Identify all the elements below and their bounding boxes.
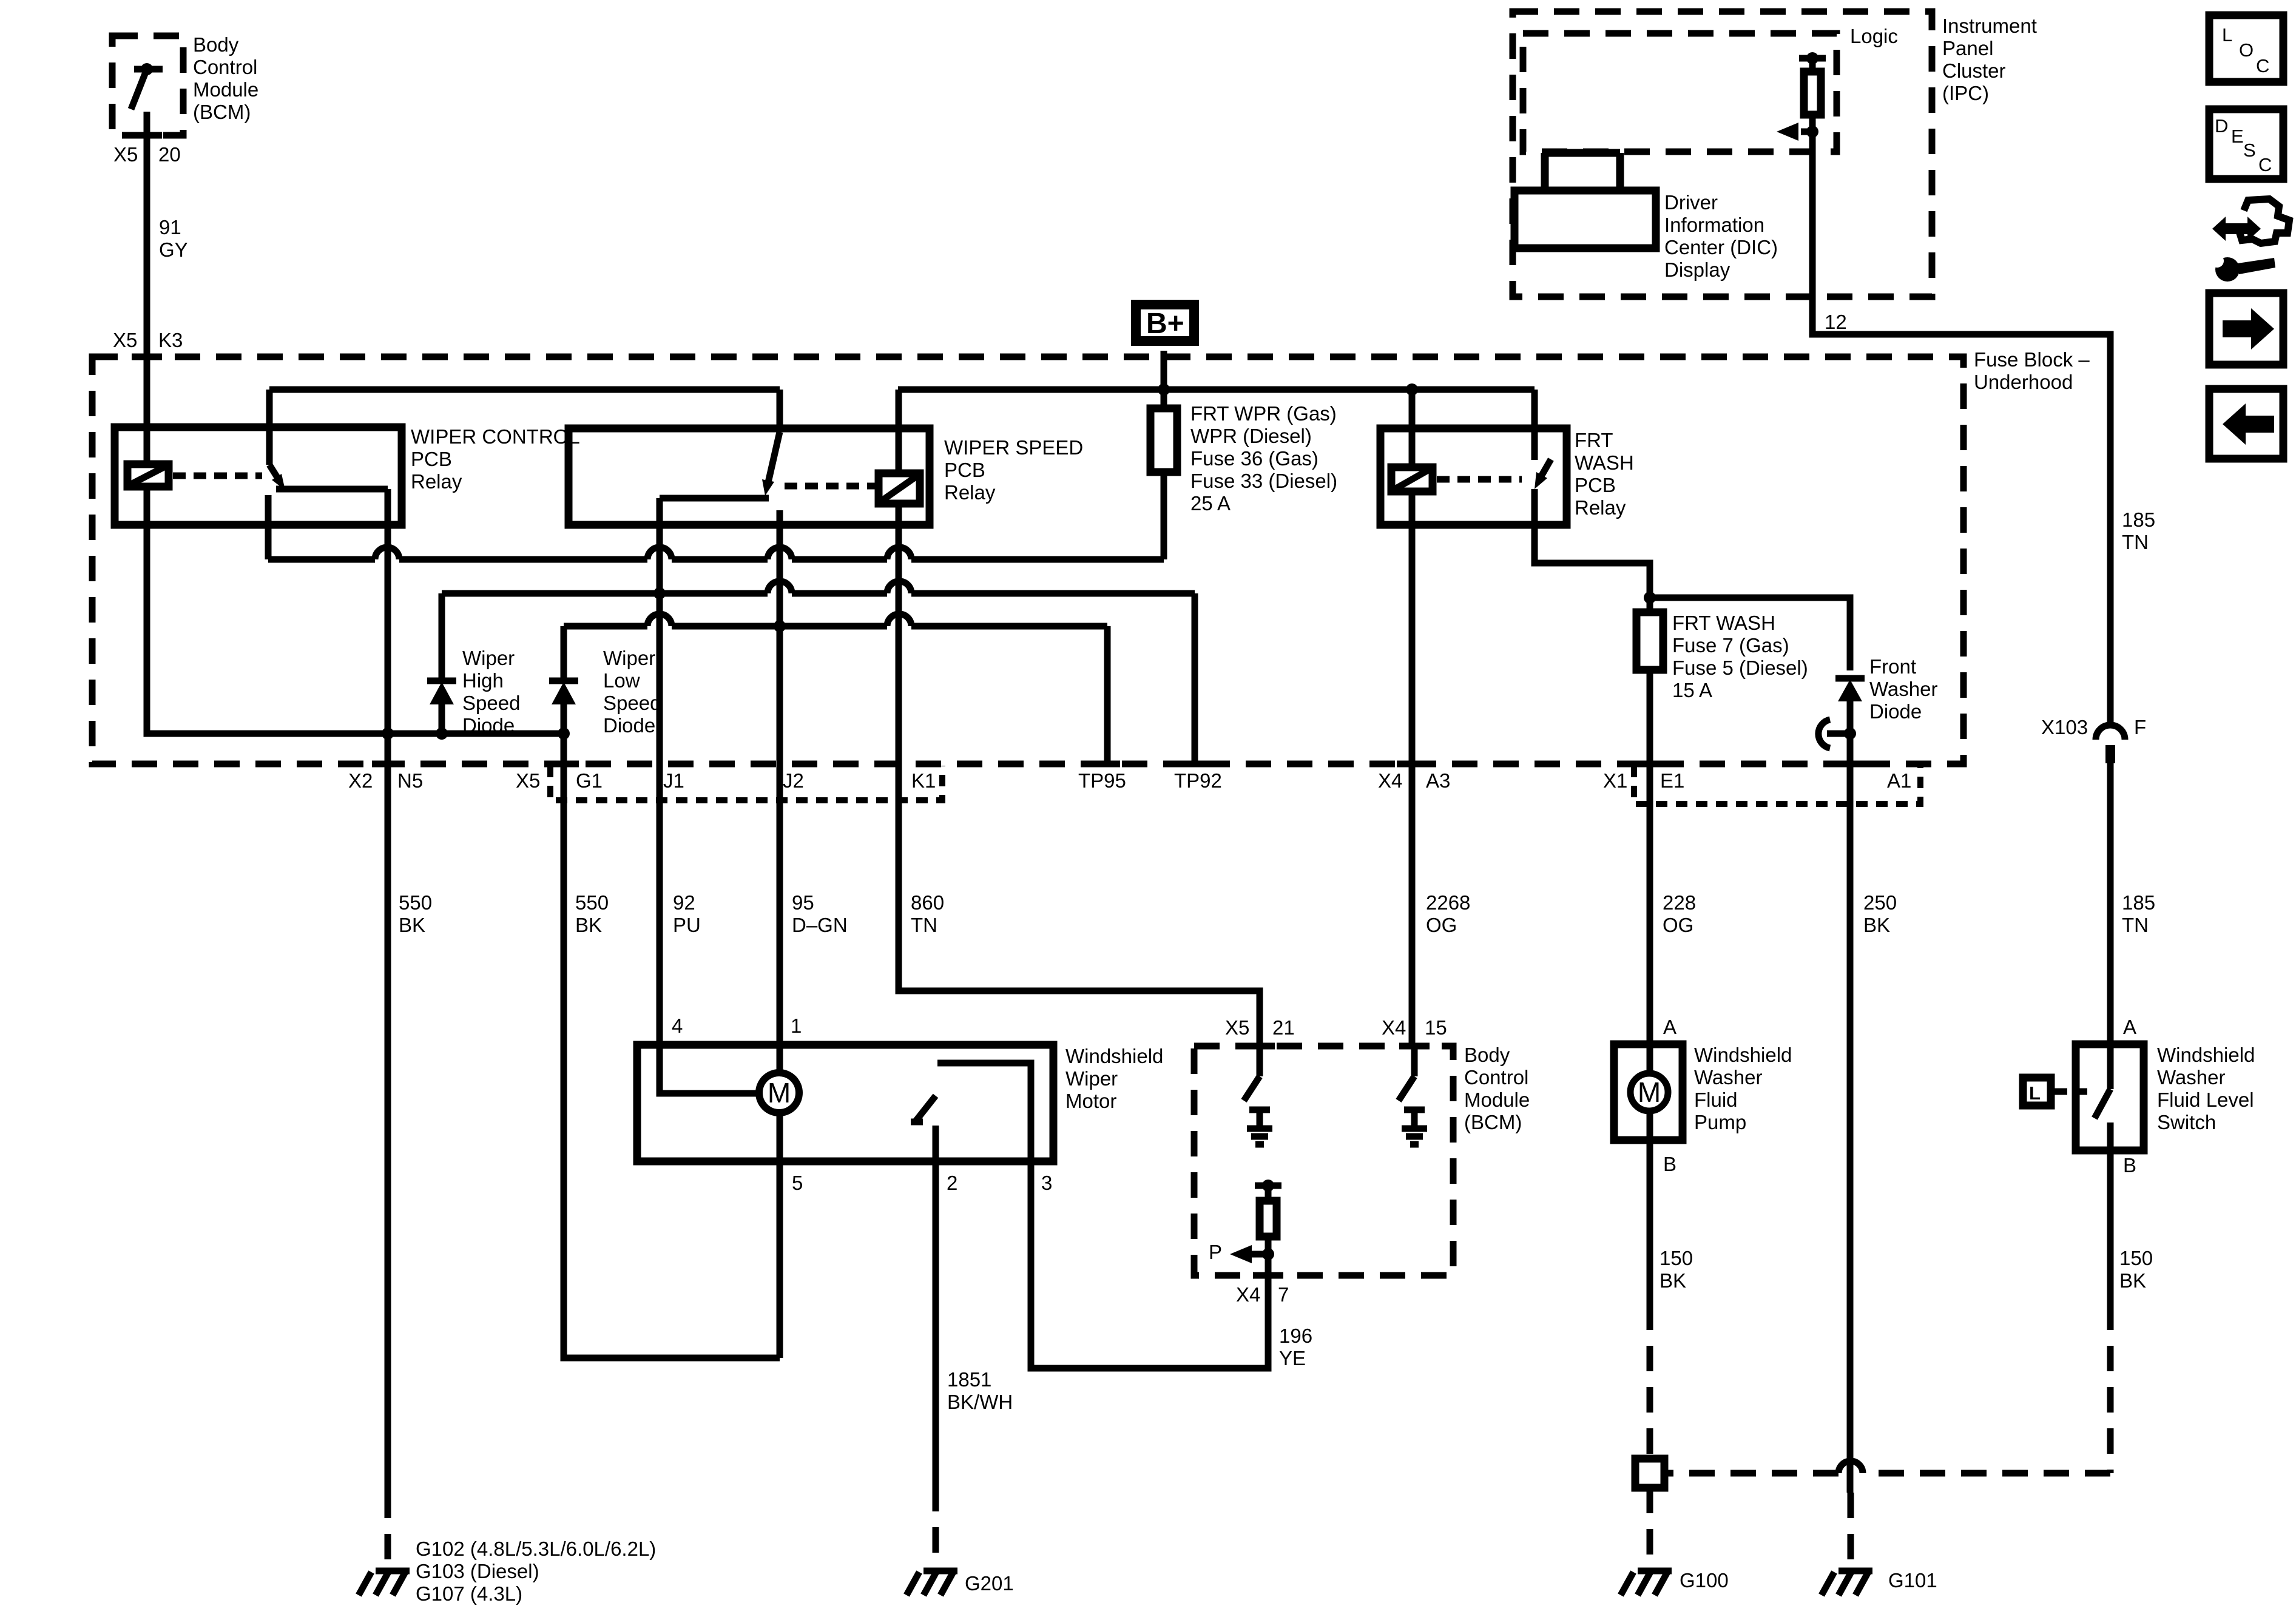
svg-text:150: 150 bbox=[1660, 1247, 1693, 1269]
svg-text:Underhood: Underhood bbox=[1974, 371, 2073, 393]
wire wiper speed coil feed bbox=[896, 390, 902, 473]
svg-text:BK: BK bbox=[399, 914, 425, 936]
svg-text:550: 550 bbox=[575, 891, 609, 914]
svg-text:TP95: TP95 bbox=[1078, 769, 1126, 792]
wire frt wash switch output to fuse node bbox=[1535, 489, 1650, 612]
node lineA at J1 bbox=[653, 587, 666, 599]
pump M motor bbox=[1630, 1073, 1668, 1111]
wire 250 BK: diode down through A1 bbox=[1847, 701, 1854, 1493]
ground G102 bbox=[359, 1571, 410, 1595]
connector stub at diode splice bbox=[1818, 720, 1850, 748]
windshield washer fluid pump box bbox=[1614, 1044, 1683, 1140]
svg-text:D: D bbox=[2215, 115, 2228, 137]
svg-text:Cluster: Cluster bbox=[1942, 59, 2006, 82]
motor park switch contact from pin 3 bbox=[937, 1063, 1031, 1161]
svg-text:Relay: Relay bbox=[411, 470, 462, 493]
wiper control relay coil bbox=[127, 464, 169, 487]
logic dashed box bbox=[1523, 33, 1837, 152]
svg-text:Washer: Washer bbox=[1694, 1066, 1762, 1089]
wire 185 TN X103 to level switch A bbox=[2107, 763, 2114, 1044]
svg-text:Windshield: Windshield bbox=[2157, 1044, 2255, 1066]
connector tick X4/A3 bbox=[1397, 761, 1427, 768]
icon LOC box bbox=[2209, 15, 2283, 82]
svg-text:Diode: Diode bbox=[462, 714, 515, 737]
wire 196 YE pin 3 to BCM X4/7 bbox=[1031, 1161, 1268, 1368]
svg-text:E1: E1 bbox=[1660, 769, 1684, 792]
wire from FRT WPR fuse west along y922 to control relay stub bbox=[268, 472, 1164, 559]
wiper control relay switch blade bbox=[269, 465, 285, 490]
wire hop at J2 bbox=[768, 547, 792, 559]
svg-text:150: 150 bbox=[2119, 1247, 2153, 1269]
svg-text:High: High bbox=[462, 669, 504, 692]
svg-text:4: 4 bbox=[672, 1014, 683, 1037]
connector tick TP92 bbox=[1182, 761, 1207, 768]
wire hop at G101 wire bbox=[1838, 1461, 1863, 1473]
svg-text:G102 (4.8L/5.3L/6.0L/6.2L): G102 (4.8L/5.3L/6.0L/6.2L) bbox=[416, 1538, 656, 1560]
wire 91 GY from BCM X5-20 down to wiper control relay coil bbox=[144, 112, 150, 464]
fuse block underhood dashed box bbox=[92, 357, 1963, 764]
svg-text:Control: Control bbox=[1464, 1066, 1528, 1089]
wire 228 OG: fuse 7 down to washer pump A bbox=[1647, 670, 1653, 1305]
svg-text:Pump: Pump bbox=[1694, 1111, 1746, 1133]
svg-text:Speed: Speed bbox=[603, 692, 661, 714]
splice box bbox=[1635, 1459, 1664, 1488]
svg-text:Fuse Block –: Fuse Block – bbox=[1974, 348, 2090, 371]
wire dashed splice to G100 bbox=[1647, 1488, 1653, 1568]
svg-text:WIPER CONTROL: WIPER CONTROL bbox=[411, 425, 580, 448]
level sensor L box bbox=[2023, 1078, 2051, 1106]
level switch feed bbox=[2107, 1044, 2114, 1089]
wiper control relay box bbox=[115, 427, 402, 525]
svg-text:Center (DIC): Center (DIC) bbox=[1664, 236, 1778, 258]
ground G100 bbox=[1621, 1571, 1672, 1595]
svg-text:Relay: Relay bbox=[1575, 496, 1626, 519]
svg-text:FRT WPR (Gas): FRT WPR (Gas) bbox=[1190, 402, 1337, 425]
connector tick A1 bbox=[1835, 761, 1865, 768]
svg-text:25 A: 25 A bbox=[1190, 492, 1231, 515]
level switch blade bbox=[2095, 1089, 2110, 1118]
svg-text:95: 95 bbox=[792, 891, 814, 914]
svg-text:Relay: Relay bbox=[944, 481, 996, 504]
wire high speed diode anode to bus bbox=[439, 704, 445, 734]
svg-text:WPR (Diesel): WPR (Diesel) bbox=[1190, 425, 1312, 447]
svg-text:Fuse 5 (Diesel): Fuse 5 (Diesel) bbox=[1672, 657, 1808, 679]
wiper speed relay box bbox=[569, 428, 930, 525]
wire low speed diode top to J2 and TP95 bbox=[564, 626, 1107, 763]
signal arrow P bbox=[1230, 1245, 1268, 1263]
svg-text:5: 5 bbox=[792, 1172, 803, 1194]
svg-text:Information: Information bbox=[1664, 214, 1764, 236]
wire pump B down bbox=[1647, 1140, 1653, 1305]
icon repair shortcut bbox=[2210, 199, 2289, 282]
wire 12 from IPC to X103 bbox=[1812, 132, 2110, 726]
wire high speed diode top to J1 and TP92 bbox=[442, 593, 1195, 763]
wire wiper speed switch feed bbox=[777, 390, 783, 432]
svg-text:WASH: WASH bbox=[1575, 451, 1634, 474]
wire coil output down and bus to low speed diode bbox=[147, 487, 564, 734]
wire hop lineB at J1 bbox=[647, 614, 672, 626]
wiper speed relay contact bar bbox=[660, 495, 769, 502]
wire dashed level switch down bbox=[2107, 1305, 2114, 1473]
wiper speed relay coil linkage bbox=[785, 483, 875, 490]
svg-text:Body: Body bbox=[1464, 1044, 1510, 1066]
connector tick X2/N5 bbox=[372, 761, 402, 768]
svg-text:X5: X5 bbox=[516, 769, 540, 792]
wire G1 550 BK down and over to motor pin 5 bbox=[564, 734, 780, 1358]
BCM internal switch blade bbox=[131, 69, 147, 109]
wire X4/A3 2268 OG: coil to BCM X4/15 bbox=[1409, 491, 1416, 1046]
svg-text:X2: X2 bbox=[348, 769, 373, 792]
svg-text:S: S bbox=[2243, 140, 2256, 161]
svg-text:BK: BK bbox=[2119, 1269, 2146, 1292]
svg-text:Wiper: Wiper bbox=[603, 647, 655, 669]
svg-text:TN: TN bbox=[2122, 531, 2149, 553]
svg-text:Fluid Level: Fluid Level bbox=[2157, 1089, 2254, 1111]
svg-text:BK: BK bbox=[1863, 914, 1890, 936]
wiper speed relay coil bbox=[879, 473, 920, 504]
svg-text:1851: 1851 bbox=[947, 1368, 991, 1391]
svg-text:2: 2 bbox=[947, 1172, 957, 1194]
svg-text:B: B bbox=[1663, 1153, 1676, 1175]
connector tick TP95 bbox=[1095, 761, 1120, 768]
wire N5 drop: contact to X2/N5 550 BK bbox=[385, 489, 391, 1493]
svg-text:Washer: Washer bbox=[2157, 1066, 2225, 1089]
connector tick X1/E1 bbox=[1635, 761, 1665, 768]
svg-text:C: C bbox=[2256, 55, 2269, 76]
node logic output bbox=[1806, 126, 1818, 138]
svg-text:Module: Module bbox=[1464, 1089, 1530, 1111]
svg-text:Driver: Driver bbox=[1664, 191, 1718, 214]
wire K1 860 TN: coil to BCM X5/21 bbox=[899, 504, 1260, 1046]
svg-text:185: 185 bbox=[2122, 891, 2155, 914]
svg-text:X5: X5 bbox=[1225, 1016, 1249, 1039]
connector tick X5/K3 bbox=[132, 354, 162, 360]
svg-text:Front: Front bbox=[1869, 655, 1916, 678]
diode wiper low speed bbox=[549, 681, 578, 704]
wire hop at J1 bbox=[647, 547, 672, 559]
wire wiper control switch feed bbox=[266, 390, 273, 465]
svg-text:1: 1 bbox=[791, 1014, 802, 1037]
ground G201 bbox=[907, 1571, 957, 1595]
svg-text:YE: YE bbox=[1279, 1347, 1306, 1369]
wire hop lineB at K1 bbox=[887, 614, 911, 626]
svg-text:K3: K3 bbox=[158, 329, 183, 351]
node diode splice bbox=[1844, 727, 1856, 740]
svg-text:X5: X5 bbox=[113, 329, 137, 351]
svg-text:2268: 2268 bbox=[1426, 891, 1470, 914]
diode front washer bbox=[1835, 678, 1865, 701]
wire hop at K1 bbox=[887, 547, 911, 559]
node bus at N5 bbox=[382, 727, 394, 740]
ground contact inside BCM left bbox=[1247, 1110, 1272, 1144]
node frt wash coil bus junction bbox=[1406, 383, 1418, 396]
svg-text:G101: G101 bbox=[1888, 1569, 1937, 1592]
svg-text:X103: X103 bbox=[2041, 716, 2088, 738]
icon DESC box bbox=[2209, 109, 2283, 179]
connector row X1 E1..A1 dashed box bbox=[1634, 766, 1920, 804]
svg-text:3: 3 bbox=[1041, 1172, 1052, 1194]
wire J1: contact bar down to motor pin 4 bbox=[657, 498, 663, 1045]
ground G101 bbox=[1822, 1571, 1872, 1595]
svg-text:228: 228 bbox=[1663, 891, 1696, 914]
node BCM switch bbox=[141, 63, 153, 75]
svg-text:L: L bbox=[2029, 1082, 2041, 1104]
svg-text:(BCM): (BCM) bbox=[193, 101, 251, 123]
wire dashed pump to splice bbox=[1647, 1305, 1653, 1459]
svg-text:Body: Body bbox=[193, 33, 239, 56]
connector tick X5/21 bbox=[1244, 1043, 1275, 1050]
frt wash relay switch blade bbox=[1535, 459, 1551, 489]
svg-text:M: M bbox=[1638, 1076, 1661, 1108]
svg-text:G100: G100 bbox=[1680, 1569, 1729, 1592]
windshield washer fluid level switch box bbox=[2076, 1044, 2144, 1150]
signal arrow in logic bbox=[1777, 123, 1812, 141]
node bus at high diode bbox=[436, 727, 448, 740]
svg-text:(BCM): (BCM) bbox=[1464, 1111, 1522, 1133]
fuse FRT WASH 15A bbox=[1636, 612, 1663, 670]
svg-text:TN: TN bbox=[911, 914, 937, 936]
wire B+ drop to bus and fuse bbox=[1161, 351, 1167, 408]
connector tick X5/G1 bbox=[549, 761, 579, 768]
svg-text:J2: J2 bbox=[783, 769, 804, 792]
wire dashed to G102 bbox=[385, 1493, 391, 1568]
DIC display box bbox=[1514, 153, 1656, 248]
svg-text:92: 92 bbox=[673, 891, 695, 914]
svg-text:X4: X4 bbox=[1378, 769, 1402, 792]
svg-text:O: O bbox=[2239, 39, 2254, 61]
connector tick X5/20 bbox=[132, 132, 162, 139]
svg-text:K1: K1 bbox=[911, 769, 936, 792]
svg-text:12: 12 bbox=[1825, 311, 1847, 333]
svg-text:185: 185 bbox=[2122, 508, 2155, 531]
svg-text:PCB: PCB bbox=[944, 459, 985, 481]
connector row X5 G1..K1 dashed box bbox=[550, 766, 942, 800]
instrument panel cluster (IPC) dashed box bbox=[1513, 12, 1932, 297]
wire branch to front washer diode bbox=[1650, 598, 1850, 670]
body control module (BCM) bottom dashed box bbox=[1194, 1046, 1453, 1275]
motor M armature bbox=[759, 1073, 799, 1113]
wire top bus segment right bbox=[898, 387, 1535, 393]
svg-text:(IPC): (IPC) bbox=[1942, 82, 1989, 104]
svg-text:X4: X4 bbox=[1382, 1016, 1406, 1039]
wire motor pin4 internal to motor bbox=[660, 1045, 759, 1093]
svg-text:OG: OG bbox=[1426, 914, 1457, 936]
svg-text:Windshield: Windshield bbox=[1694, 1044, 1792, 1066]
wiper control relay contact bar bbox=[276, 486, 388, 493]
svg-text:WIPER SPEED: WIPER SPEED bbox=[944, 436, 1083, 459]
svg-text:PCB: PCB bbox=[1575, 474, 1616, 496]
svg-text:Module: Module bbox=[193, 78, 258, 101]
node P junction bbox=[1262, 1248, 1274, 1260]
svg-text:550: 550 bbox=[399, 891, 432, 914]
logic resistor top bar bbox=[1799, 55, 1826, 62]
wiper control relay coil linkage bbox=[173, 473, 262, 479]
wiper speed relay switch blade bbox=[762, 432, 780, 496]
icon arrow left box bbox=[2209, 389, 2283, 459]
svg-text:A: A bbox=[2123, 1016, 2136, 1038]
svg-text:21: 21 bbox=[1272, 1016, 1295, 1039]
frt wash relay coil bbox=[1391, 467, 1433, 491]
icon arrow right box bbox=[2209, 293, 2283, 365]
ground contact inside BCM right bbox=[1402, 1110, 1427, 1144]
svg-text:Washer: Washer bbox=[1869, 678, 1937, 700]
motor park switch pin 2 stub bbox=[933, 1126, 939, 1161]
svg-text:Motor: Motor bbox=[1065, 1090, 1116, 1112]
svg-text:Windshield: Windshield bbox=[1065, 1045, 1163, 1067]
svg-text:A3: A3 bbox=[1426, 769, 1450, 792]
windshield wiper motor box bbox=[637, 1045, 1053, 1161]
wire level switch B down bbox=[2107, 1150, 2114, 1305]
svg-text:N5: N5 bbox=[397, 769, 423, 792]
node B+ bus junction bbox=[1158, 383, 1170, 396]
wire hop lineA at K1 bbox=[887, 581, 911, 593]
wire low speed diode anode to bus bbox=[561, 704, 567, 734]
svg-text:X1: X1 bbox=[1603, 769, 1627, 792]
BCM switch X5/21 bbox=[1244, 1046, 1260, 1101]
svg-text:Switch: Switch bbox=[2157, 1111, 2216, 1133]
wire frt wash coil feed bbox=[1409, 390, 1416, 467]
diode wiper high speed bbox=[427, 681, 456, 704]
node bus at G1 bbox=[558, 727, 570, 740]
svg-text:F: F bbox=[2134, 716, 2146, 738]
node logic resistor top bbox=[1806, 52, 1818, 64]
wire dashed to G201 bbox=[933, 1486, 939, 1568]
svg-text:X4: X4 bbox=[1236, 1283, 1260, 1306]
svg-text:B: B bbox=[2123, 1154, 2136, 1176]
motor park switch blade bbox=[911, 1096, 936, 1122]
svg-text:G1: G1 bbox=[576, 769, 603, 792]
svg-text:PCB: PCB bbox=[411, 448, 452, 470]
svg-text:G107 (4.3L): G107 (4.3L) bbox=[416, 1582, 522, 1605]
svg-text:Fuse 7 (Gas): Fuse 7 (Gas) bbox=[1672, 634, 1789, 657]
wire top bus segment left bbox=[269, 387, 780, 393]
svg-text:E: E bbox=[2231, 126, 2244, 147]
svg-text:D–GN: D–GN bbox=[792, 914, 848, 936]
svg-text:P: P bbox=[1209, 1241, 1222, 1263]
svg-text:Display: Display bbox=[1664, 258, 1730, 281]
wire dashed to G101 bbox=[1848, 1493, 1854, 1568]
svg-text:FRT: FRT bbox=[1575, 429, 1613, 451]
svg-text:196: 196 bbox=[1279, 1325, 1312, 1347]
svg-text:BK/WH: BK/WH bbox=[947, 1391, 1013, 1413]
BCM switch X4/15 bbox=[1399, 1046, 1414, 1101]
svg-text:Fluid: Fluid bbox=[1694, 1089, 1738, 1111]
svg-text:250: 250 bbox=[1863, 891, 1897, 914]
svg-text:G201: G201 bbox=[965, 1572, 1014, 1595]
svg-text:X5: X5 bbox=[113, 143, 138, 166]
svg-text:Wiper: Wiper bbox=[462, 647, 515, 669]
svg-text:TN: TN bbox=[2122, 914, 2149, 936]
svg-text:Control: Control bbox=[193, 56, 257, 78]
svg-text:Wiper: Wiper bbox=[1065, 1067, 1118, 1090]
svg-text:7: 7 bbox=[1278, 1283, 1289, 1306]
svg-text:L: L bbox=[2222, 24, 2232, 46]
svg-text:C: C bbox=[2258, 154, 2272, 175]
level sensor linkage bbox=[2055, 1089, 2087, 1095]
connector X103 F bbox=[2096, 725, 2125, 763]
wire 1851 BK/WH pin 2 down to G201 bbox=[933, 1161, 939, 1486]
svg-text:15 A: 15 A bbox=[1672, 679, 1712, 701]
svg-text:FRT WASH: FRT WASH bbox=[1672, 612, 1775, 634]
wire motor armature down to pin 5 and over to G1 wire bbox=[777, 1113, 783, 1358]
connector tick X4/15 bbox=[1399, 1043, 1430, 1050]
svg-text:Fuse 33 (Diesel): Fuse 33 (Diesel) bbox=[1190, 470, 1337, 492]
wire dashed horizontal to splice bbox=[1664, 1470, 2110, 1477]
node lineB at J2 bbox=[774, 620, 786, 632]
svg-text:A: A bbox=[1663, 1016, 1676, 1038]
resistor BCM park sense bbox=[1260, 1186, 1277, 1254]
connector tick X4/7 bbox=[1253, 1272, 1283, 1279]
svg-text:GY: GY bbox=[159, 238, 188, 261]
svg-text:Instrument: Instrument bbox=[1942, 15, 2037, 37]
svg-text:OG: OG bbox=[1663, 914, 1693, 936]
svg-text:B+: B+ bbox=[1146, 308, 1184, 340]
svg-text:15: 15 bbox=[1425, 1016, 1447, 1039]
fuse FRT WPR 25A bbox=[1150, 408, 1177, 472]
svg-text:20: 20 bbox=[158, 143, 181, 166]
svg-text:Fuse 36 (Gas): Fuse 36 (Gas) bbox=[1190, 447, 1319, 470]
svg-text:M: M bbox=[768, 1077, 791, 1109]
svg-text:BK: BK bbox=[575, 914, 602, 936]
wire frt wash switch feed bbox=[1531, 390, 1538, 460]
node fuse 7 top bbox=[1644, 592, 1656, 604]
svg-text:TP92: TP92 bbox=[1174, 769, 1222, 792]
svg-text:A1: A1 bbox=[1887, 769, 1911, 792]
resistor logic bbox=[1804, 58, 1821, 132]
wire hop at N5 bbox=[375, 547, 399, 559]
wiper control relay NC stub bbox=[265, 495, 272, 559]
frt wash relay box bbox=[1380, 428, 1567, 525]
svg-text:Diode: Diode bbox=[603, 714, 655, 737]
svg-text:BK: BK bbox=[1660, 1269, 1686, 1292]
B+ battery terminal box bbox=[1136, 305, 1194, 341]
svg-text:Logic: Logic bbox=[1850, 25, 1898, 47]
level switch stub bbox=[2107, 1122, 2114, 1150]
wire J2: NO stub down to motor pin 1 bbox=[777, 510, 783, 1073]
svg-text:860: 860 bbox=[911, 891, 944, 914]
body control module (BCM) top dashed box bbox=[112, 36, 183, 135]
wire hop lineA at J2 bbox=[768, 581, 792, 593]
svg-text:PU: PU bbox=[673, 914, 701, 936]
svg-text:Speed: Speed bbox=[462, 692, 520, 714]
svg-text:G103 (Diesel): G103 (Diesel) bbox=[416, 1560, 539, 1582]
frt wash relay coil linkage bbox=[1437, 476, 1522, 483]
svg-text:91: 91 bbox=[159, 216, 181, 238]
svg-text:Low: Low bbox=[603, 669, 640, 692]
svg-text:Diode: Diode bbox=[1869, 700, 1922, 723]
BCM internal switch bar bbox=[134, 66, 163, 73]
svg-text:J1: J1 bbox=[663, 769, 684, 792]
resistor BCM park sense top bar bbox=[1255, 1180, 1281, 1192]
svg-text:Panel: Panel bbox=[1942, 37, 1993, 59]
